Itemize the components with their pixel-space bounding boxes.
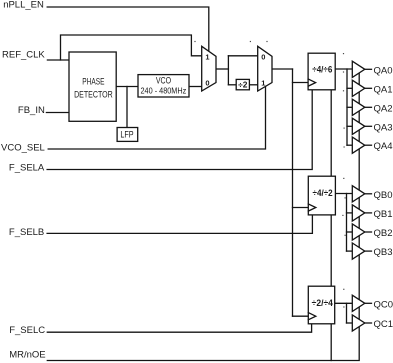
wire div4-2 output to QB0: [335, 193, 352, 195]
svg-text:QB3: QB3: [374, 247, 393, 258]
buffer QB3: [352, 243, 365, 259]
buffer QA0: [352, 61, 365, 77]
wire QB2 input stub: [347, 231, 353, 233]
wire QA1 input stub: [347, 87, 352, 89]
buffer QC1: [352, 315, 365, 331]
mux2 VCO_SEL mux: [258, 46, 272, 91]
wire to div2 input: [228, 84, 236, 86]
wire QA0 output: [365, 68, 372, 70]
svg-text:÷4/÷6: ÷4/÷6: [312, 64, 332, 75]
wire F_SELC net to div2-4 select: [47, 324, 311, 332]
clock input triangle of div4-2: [308, 204, 316, 211]
wire phase detector output to VCO: [116, 86, 138, 88]
svg-text:1: 1: [205, 52, 209, 61]
wire clock branch to div4-2: [293, 207, 309, 209]
svg-text:QC0: QC0: [374, 299, 393, 310]
buffer QB1: [352, 205, 365, 221]
wire div2 output to mux2 input 1: [249, 84, 257, 86]
svg-text:0: 0: [261, 52, 265, 61]
clock input triangle of div4-6: [308, 79, 316, 86]
buffer QA3: [352, 118, 365, 134]
wire QB0 output: [365, 193, 372, 195]
svg-text:÷2: ÷2: [238, 81, 248, 90]
svg-text:QA3: QA3: [374, 122, 393, 133]
wire QA2 input stub: [347, 106, 352, 108]
wire QB3 input stub: [347, 250, 353, 252]
wire QB1 output: [365, 212, 372, 214]
divider block div2-4: [308, 286, 334, 324]
divider block div4-2: [308, 176, 335, 215]
wire QA4 input stub: [347, 144, 352, 146]
wire VCO output to mux1 input 0: [189, 86, 202, 88]
wire split vertical: [227, 56, 229, 85]
wire REF_CLK to phase detector: [47, 59, 69, 61]
svg-text:LFP: LFP: [120, 130, 133, 141]
svg-text:PHASE: PHASE: [82, 76, 104, 87]
svg-text:240 - 480MHz: 240 - 480MHz: [141, 86, 187, 96]
wire QA2 output: [365, 106, 372, 108]
svg-text:QA2: QA2: [374, 103, 393, 114]
divide-by-2 block: [236, 79, 249, 89]
wire FB_IN to phase detector: [46, 112, 69, 114]
svg-text:REF_CLK: REF_CLK: [2, 49, 45, 60]
wire direct path to mux2 input 0: [228, 55, 257, 57]
wire MR cascade vertical through divider boxes: [330, 70, 332, 361]
wire REF_CLK bypass branch up and over to mux1 input 1: [61, 35, 202, 60]
svg-text:QA4: QA4: [374, 141, 393, 152]
clock input triangle of div2-4: [308, 313, 316, 320]
wire nPLL_EN net to mux1 select: [47, 7, 209, 52]
svg-text:VCO_SEL: VCO_SEL: [1, 143, 45, 154]
svg-text:DETECTOR: DETECTOR: [74, 89, 113, 100]
wire QB3 output: [365, 250, 372, 252]
svg-text:QA1: QA1: [374, 84, 393, 95]
VCO block: [138, 75, 189, 97]
svg-text:FB_IN: FB_IN: [18, 105, 45, 116]
svg-text:F_SELC: F_SELC: [9, 325, 45, 336]
wire mux1 output: [216, 68, 228, 70]
wire QB input bus: [346, 194, 348, 252]
wire VCO_SEL net to mux2 select: [48, 86, 265, 149]
svg-text:VCO: VCO: [156, 75, 171, 85]
svg-text:nPLL_EN: nPLL_EN: [3, 0, 44, 11]
wire QB2 output: [365, 231, 372, 233]
svg-text:F_SELA: F_SELA: [9, 163, 45, 174]
wire clock branch to div4-6: [293, 82, 309, 84]
svg-text:MR/nOE: MR/nOE: [9, 350, 45, 361]
svg-text:0: 0: [205, 79, 209, 88]
wire QA4 output: [365, 144, 372, 146]
buffer QB2: [352, 224, 365, 240]
svg-text:QB0: QB0: [374, 190, 393, 201]
wire clock branch to div2-4: [293, 315, 309, 317]
svg-text:QA0: QA0: [374, 65, 393, 76]
buffer QA1: [352, 80, 365, 96]
wire MR/nOE net along bottom and up right side: [47, 73, 359, 361]
wire QB1 input stub: [347, 212, 353, 214]
wire QC input bus: [346, 303, 348, 323]
mux1 PLL bypass mux: [202, 46, 216, 91]
svg-text:F_SELB: F_SELB: [9, 227, 44, 238]
svg-text:QB1: QB1: [374, 209, 393, 220]
buffer QA2: [352, 99, 365, 115]
stray scan dots: [194, 41, 345, 308]
wire QA3 output: [365, 125, 372, 127]
wire QC0 output: [365, 302, 372, 304]
buffer QB0: [352, 186, 365, 202]
svg-text:÷4/÷2: ÷4/÷2: [313, 188, 333, 199]
svg-text:QC1: QC1: [374, 319, 393, 330]
svg-text:QB2: QB2: [374, 228, 393, 239]
wire mux2 output: [272, 68, 293, 70]
LFP block: [117, 128, 138, 142]
wire QC1 output: [365, 322, 372, 324]
wire QA input bus: [346, 69, 348, 145]
wire F_SELB net to div4-2 select: [47, 215, 312, 233]
wire F_SELA net to div4-6 select: [47, 90, 312, 170]
wire LFP drop: [126, 87, 128, 128]
phase detector U1: [69, 52, 116, 121]
wire QA1 output: [365, 87, 372, 89]
buffer QA4: [352, 137, 365, 153]
wire div4-6 output to QA0: [335, 68, 352, 70]
wire QA3 input stub: [347, 125, 352, 127]
wire QC1 input stub: [347, 322, 353, 324]
buffer QC0: [352, 295, 365, 311]
wire div2-4 output to QC0: [335, 302, 353, 304]
svg-text:÷2/÷4: ÷2/÷4: [312, 298, 334, 309]
wire main clock vertical: [292, 69, 294, 316]
svg-text:1: 1: [261, 79, 265, 88]
divider block div4-6: [308, 53, 335, 90]
